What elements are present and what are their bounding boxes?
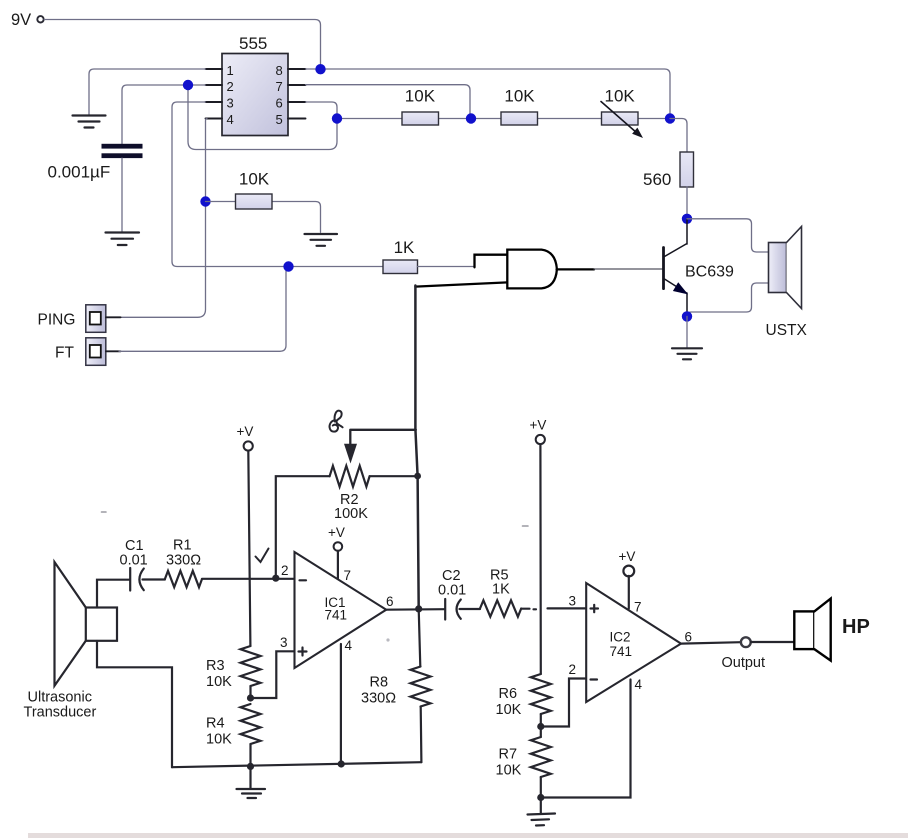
node junction dot chain left (pin6 feed) [332, 113, 342, 123]
svg-text:BC639: BC639 [685, 264, 734, 281]
resistor R1 330 zigzag [165, 571, 202, 587]
svg-text:HP: HP [842, 616, 870, 638]
wire +V down to R6 [539, 444, 542, 674]
svg-text:2: 2 [569, 662, 577, 677]
IC2 minus sign [591, 678, 598, 680]
U1 pin stubs right [288, 69, 306, 119]
svg-text:10K: 10K [206, 674, 232, 690]
scan speck near C1 [102, 511, 107, 513]
connector PING pad [86, 305, 106, 333]
wire IC1 pin4 to ground bus [340, 644, 342, 764]
node 9V supply terminal [11, 11, 44, 29]
node dot bus IC1 pin4 [338, 760, 345, 767]
wire collector to USTX top [687, 219, 769, 252]
svg-text:+V: +V [328, 525, 345, 540]
node dot R2 right / feedback [414, 473, 421, 480]
speaker HP horn [814, 599, 830, 661]
wire transducer top lead [97, 580, 130, 608]
wire R2 right lead [370, 475, 418, 477]
IC1 plus sign [299, 648, 307, 656]
wire 560 to collector [686, 187, 688, 219]
ground below capacitor [106, 233, 140, 246]
IC1 minus sign [300, 579, 307, 581]
node junction dot 9V/pin8 [315, 64, 325, 74]
svg-text:0.001µF: 0.001µF [48, 163, 111, 182]
ground IC2 stage [528, 798, 556, 826]
resistor 10K (A) body [402, 112, 439, 125]
svg-text:8: 8 [276, 63, 283, 78]
wire pin 2 to capacitor [122, 85, 206, 144]
wire R5 to IC2 pin3 (broken dashes) [521, 607, 586, 610]
svg-text:1K: 1K [492, 582, 510, 598]
node junction dot FT/pin3/1K [283, 261, 293, 271]
svg-text:10K: 10K [605, 87, 636, 106]
svg-text:0.01: 0.01 [438, 583, 466, 599]
wire gate upper input step (black) [475, 255, 508, 268]
svg-text:3: 3 [227, 96, 234, 111]
wire pin 1 to ground [89, 69, 206, 116]
wire PING stub [106, 316, 121, 318]
wire pin 8 rail to divider right end [306, 69, 671, 114]
resistor R7 10K zigzag [531, 737, 551, 777]
svg-text:R1: R1 [173, 538, 192, 554]
IC U1 555 timer body [222, 54, 288, 136]
svg-text:10K: 10K [496, 702, 522, 718]
wire 9V to pin-8 rail [44, 20, 320, 65]
svg-text:7: 7 [276, 79, 283, 94]
svg-text:Output: Output [722, 655, 766, 671]
scan artifact band bottom [28, 833, 908, 838]
transducer body rect [86, 608, 117, 641]
wire feedback down to R8 [419, 609, 421, 667]
wire R7 bottom lead [540, 777, 542, 798]
wire divider chain row [337, 118, 670, 120]
speaker USTX horn [787, 227, 802, 309]
node junction dot collector [682, 214, 692, 224]
wire FT up to pin3 line [119, 267, 291, 352]
svg-text:+V: +V [530, 418, 547, 433]
svg-text:10K: 10K [239, 170, 270, 189]
wire IC1 output to C2 [386, 608, 445, 611]
scan speck near R5 [523, 525, 529, 527]
node dot IC1 pin2 [272, 575, 279, 582]
IC2 plus sign [591, 605, 599, 612]
wire +V to IC2 pin7 [628, 576, 630, 609]
capacitor C2 plates [444, 599, 446, 620]
capacitor C1 plates [129, 568, 131, 591]
node dot IC1 output / feedback [415, 605, 422, 612]
wire +V down to R3 [248, 451, 250, 646]
wire +V to IC1 pin7 [337, 551, 339, 579]
node dot R7 bottom / IC2 pin4 [537, 794, 544, 801]
svg-text:10K: 10K [405, 87, 436, 106]
wire wiper branch from feedback line [350, 430, 416, 444]
node junction dot chain right / 9V [665, 113, 675, 123]
node junction dot pin 2 [183, 80, 193, 90]
wire R8 to bus corner [420, 707, 423, 763]
resistor 1K body [383, 260, 418, 274]
wire R3 to junction [249, 686, 251, 698]
resistor R6 10K zigzag [531, 674, 551, 714]
wire gate output to Q1 base [594, 268, 663, 270]
svg-text:FT: FT [55, 345, 74, 362]
op-amp IC2 741 triangle [586, 583, 681, 702]
wire 1K to gate upper input [418, 266, 475, 268]
potentiometer wiper arrow [344, 444, 357, 464]
svg-text:560: 560 [643, 170, 671, 189]
wire transducer bottom lead to bus [97, 641, 172, 767]
potentiometer R2 100K zigzag [330, 466, 370, 487]
node junction dot pin7/chain [466, 113, 476, 123]
wire pin 6 wrap-around to pin 2 [188, 89, 337, 150]
speaker HP body [794, 611, 814, 649]
wire capacitor to ground [121, 158, 123, 232]
transducer horn [55, 562, 86, 686]
svg-text:100K: 100K [334, 506, 368, 522]
svg-text:7: 7 [344, 568, 352, 583]
resistor R4 10K zigzag [241, 704, 261, 744]
ground symbol main bus [237, 789, 266, 798]
wire R2 left lead and down to pin2 node [276, 476, 330, 575]
wire R6 to junction [540, 714, 542, 727]
wire gate feedback thick vertical [415, 286, 418, 609]
svg-text:10K: 10K [206, 732, 232, 748]
wire R7 top lead [540, 727, 542, 738]
svg-text:4: 4 [227, 112, 234, 127]
handwritten checkmark [256, 549, 269, 563]
wire terminal to HP speaker [751, 641, 795, 643]
speaker USTX body [769, 243, 787, 293]
node dot R3/R4 junction [247, 694, 254, 701]
svg-text:4: 4 [635, 677, 643, 692]
wire pin 4 down to PING [120, 119, 207, 318]
node dot bus R4 [247, 763, 254, 770]
wire gate output (black) [557, 268, 594, 270]
svg-text:10K: 10K [496, 763, 522, 779]
node junction dot pin4 / 10K [200, 196, 210, 206]
svg-text:+V: +V [237, 424, 254, 439]
svg-text:3: 3 [569, 594, 577, 609]
svg-text:2: 2 [281, 563, 289, 578]
ground bus wire [172, 762, 421, 767]
svg-text:4: 4 [345, 638, 353, 653]
svg-text:741: 741 [325, 608, 348, 623]
svg-text:330Ω: 330Ω [361, 691, 396, 707]
resistor 10K (reset pull-down): leads [206, 202, 321, 233]
wire chain to 560 [670, 119, 687, 153]
svg-text:0.01: 0.01 [120, 553, 148, 569]
U1 pin stubs left [206, 69, 223, 119]
wire junction to IC1 pin3 [251, 651, 295, 698]
svg-text:R7: R7 [499, 747, 518, 763]
handwritten mark above wiper [330, 411, 343, 432]
svg-text:9V: 9V [11, 11, 31, 29]
ground for reset 10K [305, 234, 338, 246]
resistor 10K (B) body [501, 112, 538, 125]
wire pin 7 to divider chain [306, 85, 471, 114]
svg-text:USTX: USTX [766, 322, 808, 339]
svg-text:6: 6 [386, 594, 394, 609]
svg-text:7: 7 [634, 600, 642, 615]
resistor R8 330 zigzag (vertical) [411, 667, 431, 707]
svg-text:3: 3 [280, 635, 288, 650]
resistor 10K (C) trimmer body [602, 112, 639, 125]
resistor 560 body (vertical) [680, 152, 694, 187]
svg-text:Ultrasonic: Ultrasonic [28, 690, 92, 706]
svg-text:1: 1 [227, 63, 234, 78]
wire FT stub [106, 350, 121, 352]
node junction dot emitter [682, 311, 692, 321]
wire gate lower input from feedback line (black) [415, 282, 507, 286]
ground at emitter [672, 348, 702, 359]
resistor R3 10K zigzag (vertical) [241, 646, 261, 686]
wire R1 to IC1 pin 2 [202, 578, 295, 580]
wire junction to IC2 pin2 [541, 679, 586, 727]
wire IC2 output to terminal [681, 642, 741, 643]
connector FT pad [86, 338, 106, 366]
wire C2 to R5 [460, 608, 481, 610]
svg-text:10K: 10K [504, 87, 535, 106]
resistor R5 1K zigzag [480, 600, 521, 616]
svg-text:1K: 1K [394, 238, 415, 257]
wire pin 3 down and to 1K / gate line [172, 102, 383, 267]
svg-text:R6: R6 [499, 686, 518, 702]
output terminal circle [741, 637, 751, 647]
transistor Q1 BC639 [664, 219, 689, 316]
wire R4 to ground bus [249, 744, 251, 766]
ground at pin 1 [73, 116, 106, 128]
op-amp IC1 741 triangle [295, 552, 387, 668]
svg-text:IC2: IC2 [610, 630, 631, 645]
wire IC2 pin4 down and to R7 node [541, 680, 631, 798]
svg-text:+V: +V [619, 549, 636, 564]
wire R4 dot to ground [249, 766, 251, 788]
svg-text:6: 6 [276, 96, 283, 111]
gate U2 body [507, 250, 557, 289]
wire C1 to R1 [143, 578, 165, 580]
svg-text:741: 741 [610, 644, 633, 659]
trimmer arrow across 10K (C) [601, 102, 637, 134]
svg-text:6: 6 [685, 630, 693, 645]
scan speck right of IC1 [386, 638, 389, 641]
svg-text:555: 555 [239, 34, 267, 53]
svg-text:R8: R8 [370, 675, 389, 691]
svg-text:PING: PING [38, 312, 76, 329]
svg-text:330Ω: 330Ω [166, 553, 201, 569]
node dot R6/R7 [537, 723, 544, 730]
resistor 10K (reset) body [236, 194, 273, 209]
svg-text:R3: R3 [206, 658, 225, 674]
wire USTX bottom to emitter [687, 283, 769, 316]
svg-text:Transducer: Transducer [24, 705, 97, 721]
svg-text:2: 2 [227, 79, 234, 94]
wire emitter to ground [686, 316, 688, 348]
svg-text:R4: R4 [206, 716, 225, 732]
svg-text:5: 5 [276, 112, 283, 127]
capacitor C 0.001uF plates [102, 144, 143, 149]
